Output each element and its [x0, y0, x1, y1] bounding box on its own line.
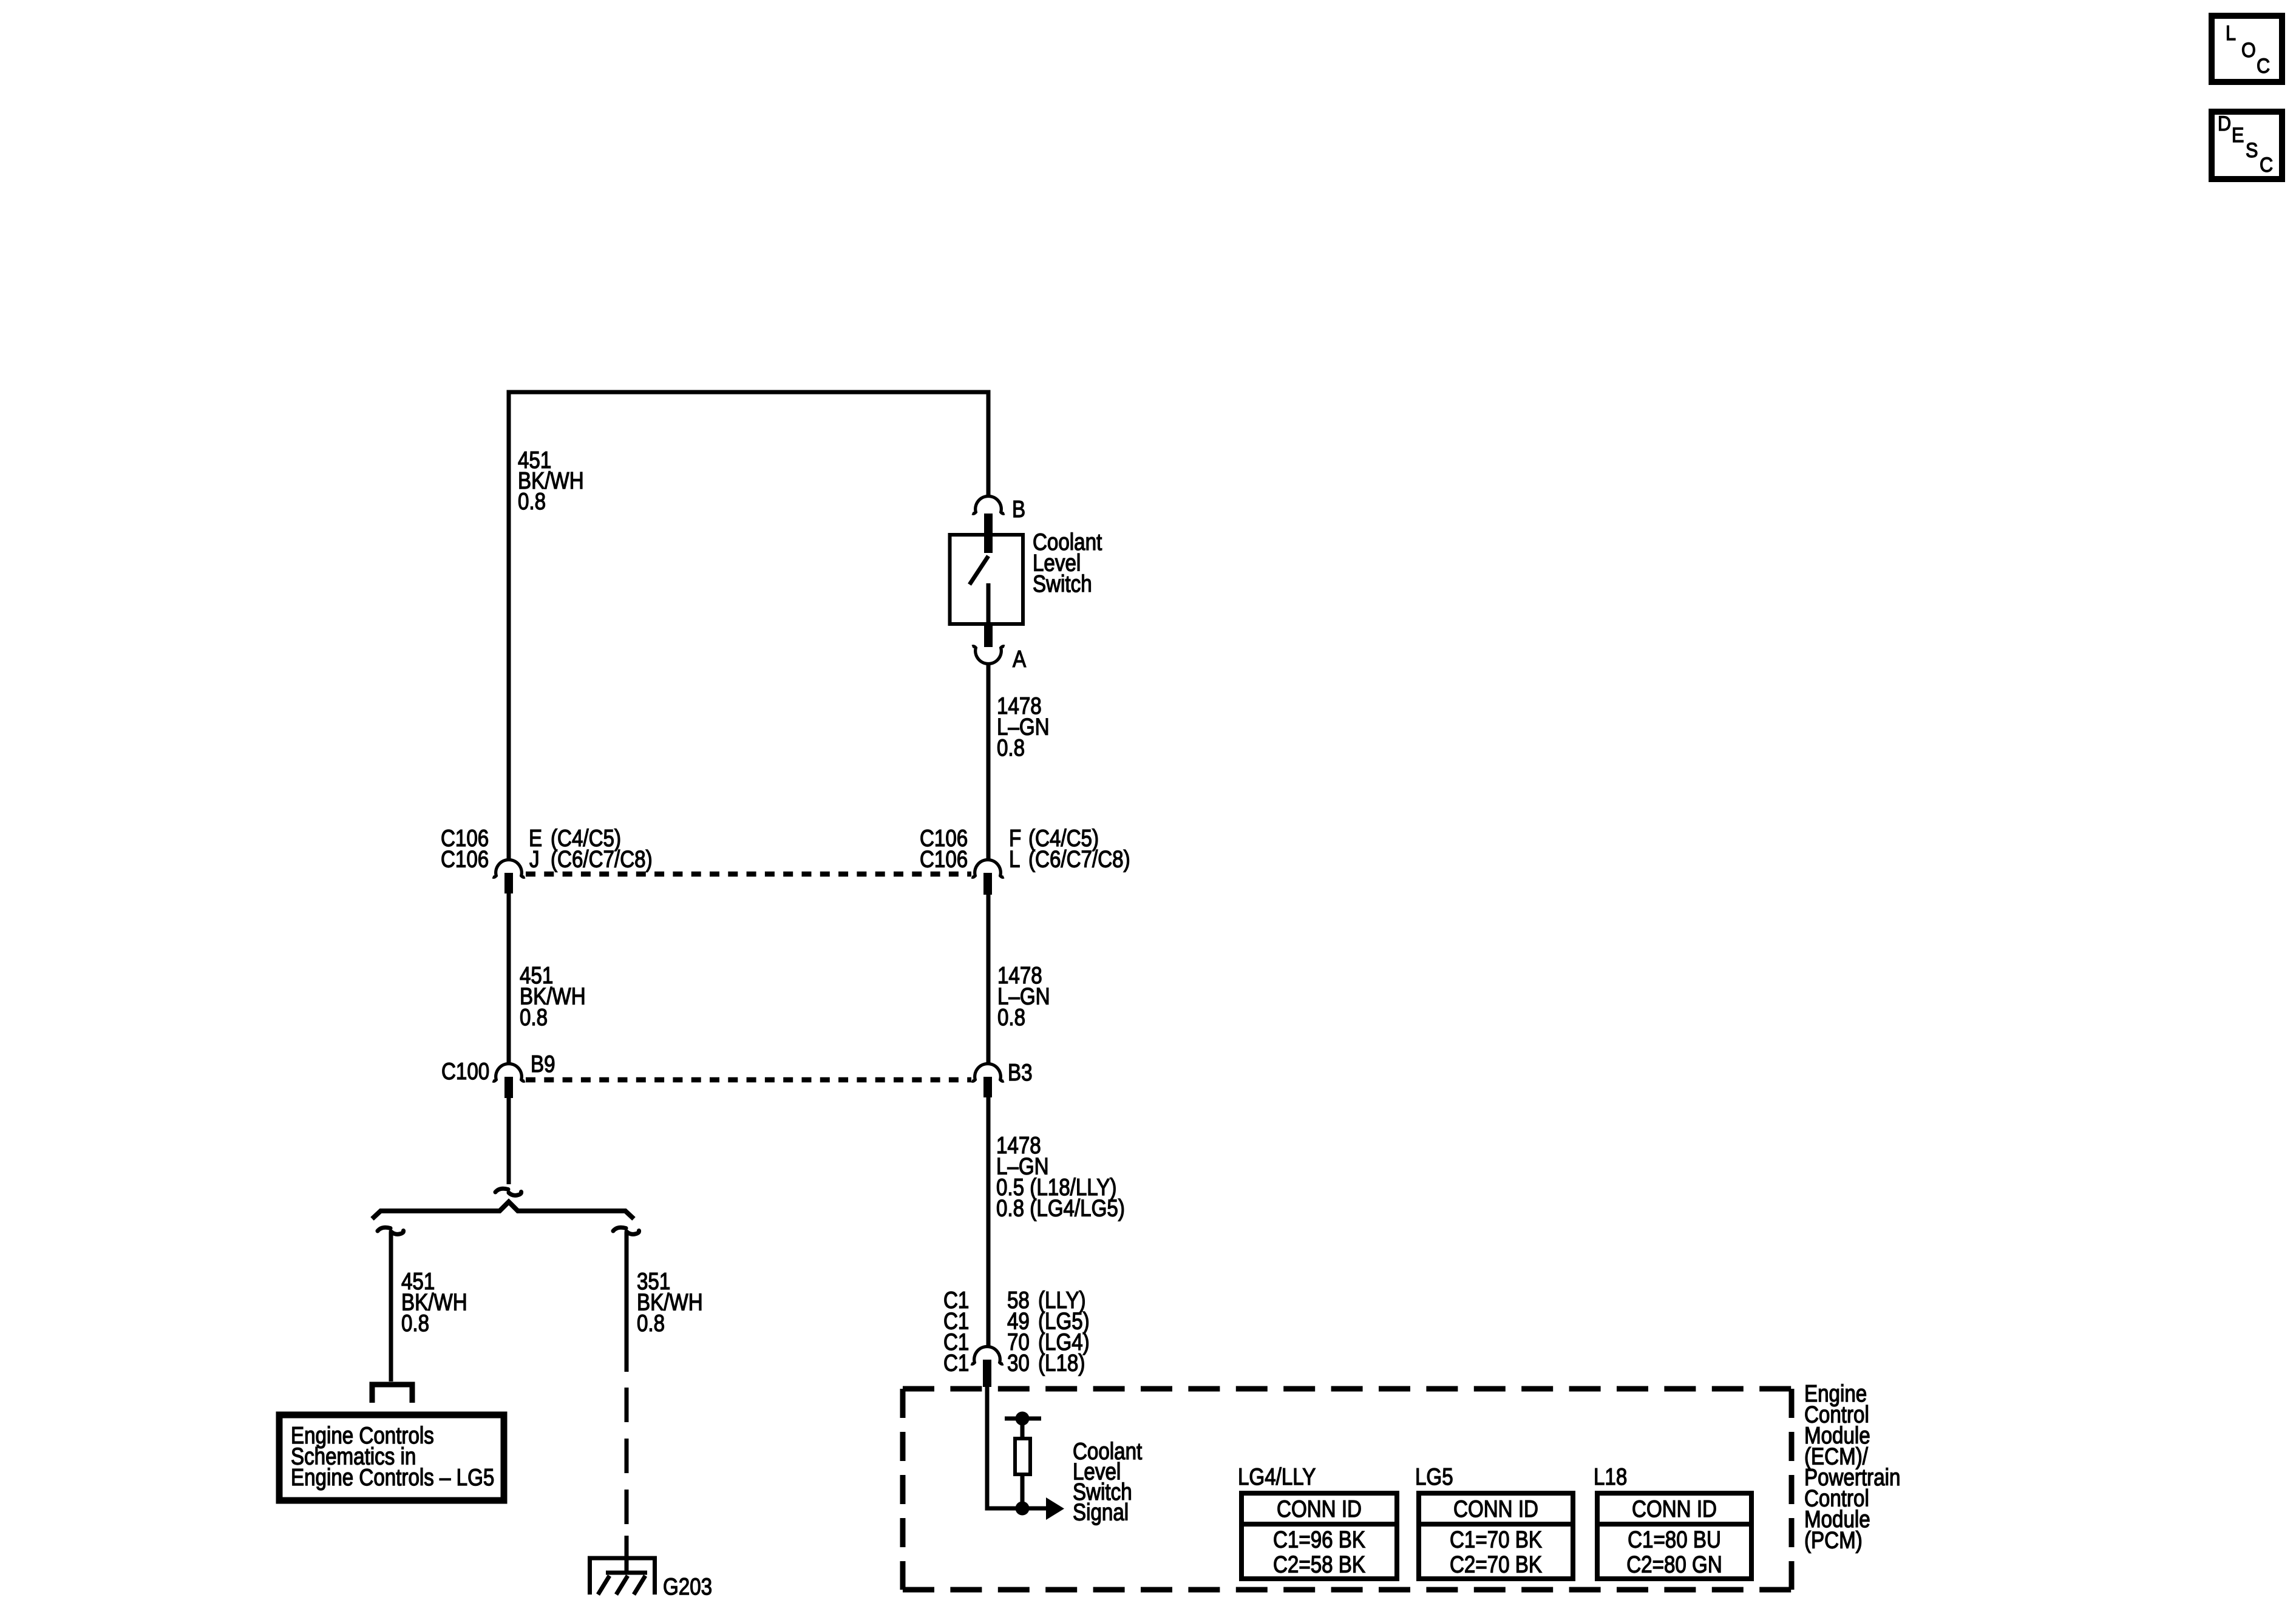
label 1478 L-GN 0.5/0.8: [996, 1131, 1125, 1221]
CONN ID table LG4/LLY: [1238, 1463, 1397, 1579]
svg-text:B9: B9: [531, 1050, 555, 1077]
engine controls reference box: [279, 1415, 504, 1500]
connector C106 left (pins E/J): [441, 824, 653, 893]
svg-text:(PCM): (PCM): [1804, 1527, 1863, 1553]
ECM/PCM dashed box: [903, 1386, 1792, 1392]
wire 1478 L-GN middle: [987, 895, 991, 1064]
label 1478 L-GN 0.8 middle: [997, 961, 1050, 1030]
signal arrow head: [1046, 1497, 1064, 1520]
LOC marker: [2212, 16, 2282, 82]
svg-text:B3: B3: [1008, 1059, 1033, 1085]
svg-text:C1=96 BK: C1=96 BK: [1273, 1526, 1365, 1553]
CONN ID table LG5: [1415, 1463, 1573, 1579]
svg-text:0.8: 0.8: [518, 487, 546, 514]
svg-text:LG5: LG5: [1415, 1463, 1453, 1490]
junction dot upper: [1016, 1412, 1030, 1426]
svg-text:C2=58 BK: C2=58 BK: [1273, 1551, 1365, 1578]
label 451 BK/WH 0.8 middle: [520, 961, 586, 1030]
connector pin B: [973, 495, 1026, 553]
wire 1478 to ECM: [987, 1097, 991, 1347]
svg-text:D: D: [2218, 112, 2231, 135]
svg-text:Engine Controls – LG5: Engine Controls – LG5: [291, 1463, 494, 1490]
svg-text:0.8: 0.8: [520, 1003, 548, 1030]
coolant level switch SW: [950, 535, 1024, 624]
wire 451 BK/WH top run: [509, 392, 988, 859]
label 451 BK/WH 0.8 top: [518, 446, 584, 514]
harness interconnect dashed line C106: [526, 872, 971, 877]
ECM internal signal wire with arrow: [987, 1387, 1064, 1520]
svg-text:A: A: [1013, 645, 1027, 672]
label 351 BK/WH 0.8 branch: [637, 1267, 703, 1336]
connector pin B3: [972, 1059, 1033, 1097]
branch wire 451 BK/WH: [378, 1227, 404, 1381]
svg-text:(C6/C7/C8): (C6/C7/C8): [1028, 846, 1130, 872]
svg-text:CONN ID: CONN ID: [1453, 1495, 1538, 1522]
resistor pull-up inside ECM: [1005, 1412, 1041, 1516]
label ECM/PCM module: [1804, 1380, 1900, 1553]
svg-text:L: L: [1009, 846, 1020, 872]
connector C1 pins 58/49/70/30: [943, 1286, 1090, 1387]
svg-text:0.8 (LG4/LG5): 0.8 (LG4/LG5): [996, 1195, 1125, 1221]
connector pin A: [973, 624, 1027, 673]
svg-text:G203: G203: [663, 1573, 712, 1599]
svg-text:C: C: [2257, 55, 2270, 78]
off-page connector to engine controls: [372, 1385, 412, 1403]
svg-text:L18: L18: [1594, 1463, 1627, 1490]
CONN ID table L18: [1594, 1463, 1751, 1579]
svg-text:C: C: [2260, 154, 2273, 177]
svg-text:30: 30: [1007, 1349, 1030, 1376]
wire 451 below C100: [507, 1098, 511, 1184]
branch wire 351 BK/WH: [613, 1227, 639, 1536]
label 451 BK/WH 0.8 branch: [401, 1267, 467, 1336]
svg-text:C2=70 BK: C2=70 BK: [1450, 1551, 1542, 1578]
DESC marker: [2212, 112, 2282, 179]
svg-text:O: O: [2241, 39, 2256, 62]
connector C106 right (pins F/L): [920, 824, 1130, 895]
svg-text:C1=80 BU: C1=80 BU: [1628, 1526, 1721, 1553]
connector C100 pin B9: [441, 1050, 555, 1098]
wire 1478 L-GN upper: [987, 663, 991, 859]
svg-text:0.8: 0.8: [637, 1309, 665, 1336]
svg-text:J: J: [529, 846, 540, 872]
svg-text:0.8: 0.8: [401, 1309, 429, 1336]
svg-text:C100: C100: [441, 1057, 489, 1084]
svg-text:0.8: 0.8: [997, 734, 1025, 761]
svg-text:C106: C106: [441, 846, 489, 872]
svg-text:C1=70 BK: C1=70 BK: [1450, 1526, 1542, 1553]
svg-text:C2=80 GN: C2=80 GN: [1626, 1551, 1722, 1578]
svg-text:Signal: Signal: [1073, 1499, 1129, 1525]
wire 451 BK/WH middle: [507, 893, 511, 1064]
svg-text:(L18): (L18): [1038, 1349, 1085, 1376]
junction dot lower: [1016, 1502, 1030, 1516]
svg-text:C1: C1: [943, 1349, 969, 1376]
splice break symbol main: [495, 1188, 521, 1195]
splice brace: [372, 1202, 634, 1219]
harness interconnect dashed line C100: [526, 1077, 971, 1083]
label Coolant Level Switch: [1033, 528, 1102, 597]
svg-text:C106: C106: [920, 846, 968, 872]
svg-text:LG4/LLY: LG4/LLY: [1238, 1463, 1316, 1490]
svg-text:Switch: Switch: [1033, 570, 1092, 597]
svg-text:0.8: 0.8: [997, 1003, 1025, 1030]
ground G203: [590, 1536, 713, 1600]
svg-text:CONN ID: CONN ID: [1277, 1495, 1362, 1522]
svg-text:B: B: [1012, 495, 1025, 522]
label 1478 L-GN 0.8 upper: [997, 692, 1050, 761]
svg-text:CONN ID: CONN ID: [1632, 1495, 1717, 1522]
svg-text:S: S: [2246, 139, 2258, 162]
svg-text:L: L: [2226, 22, 2236, 45]
svg-text:E: E: [2232, 124, 2244, 147]
label Coolant Level Switch Signal: [1073, 1437, 1142, 1525]
svg-text:(C6/C7/C8): (C6/C7/C8): [551, 846, 653, 872]
